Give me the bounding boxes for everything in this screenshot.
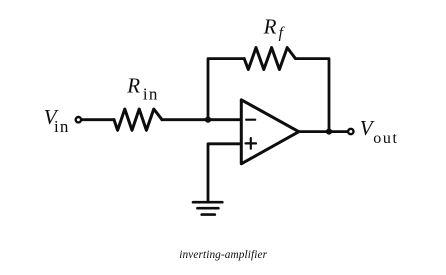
resistor Rin (114, 109, 162, 130)
node inverting-input junction (205, 117, 211, 123)
svg-text:in: in (54, 117, 70, 136)
label Rin (126, 74, 158, 104)
svg-text:R: R (126, 74, 140, 98)
svg-text:R: R (263, 15, 277, 39)
label Rf (263, 15, 286, 42)
wire (299, 130, 348, 133)
node output junction (326, 129, 332, 135)
label Vout (360, 116, 399, 147)
svg-text:out: out (373, 130, 398, 147)
wire (162, 118, 240, 121)
terminal Vin (76, 117, 81, 122)
wire (296, 59, 330, 132)
op-amp U1 (241, 100, 298, 164)
ground (193, 202, 222, 214)
resistor Rf (244, 48, 295, 70)
wire (208, 144, 240, 201)
terminal Vout (348, 129, 353, 134)
wire (82, 118, 114, 121)
svg-text:in: in (143, 84, 159, 103)
wire (208, 59, 244, 120)
label Vin (44, 105, 70, 136)
svg-text:inverting-amplifier: inverting-amplifier (179, 249, 267, 261)
svg-text:f: f (279, 25, 286, 42)
